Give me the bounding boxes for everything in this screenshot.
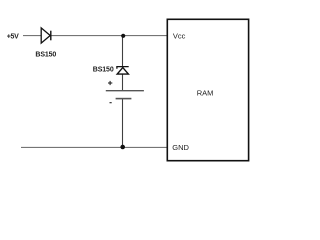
svg-text:GND: GND bbox=[172, 143, 189, 152]
svg-text:Vcc: Vcc bbox=[173, 32, 186, 41]
svg-text:+5V: +5V bbox=[7, 34, 19, 41]
svg-text:BS150: BS150 bbox=[93, 67, 114, 74]
svg-text:BS150: BS150 bbox=[35, 52, 56, 59]
svg-text:RAM: RAM bbox=[197, 89, 214, 98]
